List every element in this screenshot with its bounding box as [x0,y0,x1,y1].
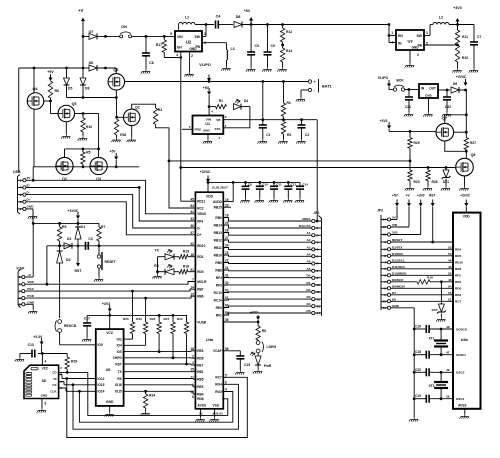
svg-text:FB: FB [417,44,422,48]
svg-text:4: 4 [45,360,47,364]
svg-text:-D5: -D5 [306,309,311,313]
svg-text:TX: TX [155,249,160,253]
svg-text:VIN: VIN [206,118,212,122]
svg-text:54: 54 [448,285,452,289]
svg-text:PwR: PwR [264,364,272,368]
svg-text:9: 9 [317,276,319,280]
svg-text:GND: GND [27,205,35,209]
svg-text:D14/TX: D14/TX [392,245,403,249]
svg-text:IO15: IO15 [115,390,122,394]
svg-text:A2: A2 [307,238,311,242]
op-amp U1 charger [193,116,224,135]
svg-text:53: 53 [448,252,452,256]
wire LED common [157,257,159,274]
svg-text:EN: EN [398,34,403,38]
svg-text:SW: SW [195,35,201,39]
ground Q1 [131,126,133,138]
svg-text:D1: D1 [81,225,85,229]
wire Q4 drain [44,100,51,102]
resistor R23 [158,315,160,322]
svg-text:A5: A5 [307,260,311,264]
svg-text:RD0: RD0 [455,287,461,291]
svg-text:+5V: +5V [110,150,117,154]
svg-text:VDD: VDD [206,195,214,199]
svg-text:D9: D9 [453,82,457,86]
svg-text:6: 6 [45,402,47,406]
svg-text:C1: C1 [266,133,270,137]
svg-text:ON: ON [121,25,127,29]
svg-text:5: 5 [19,289,21,293]
svg-text:10: 10 [317,283,321,287]
svg-text:IN: IN [398,42,402,46]
svg-text:RD5: RD5 [455,254,461,258]
wire RB15 stub [223,206,231,208]
wire U4 out [438,89,450,91]
svg-text:9,25,41: 9,25,41 [213,412,224,416]
svg-text:AVSS: AVSS [458,403,466,407]
svg-text:64: 64 [190,204,194,208]
wire top bus y68 [19,67,83,69]
wire JP2 row 44 [391,261,453,263]
svg-text:D11/SDA: D11/SDA [392,265,406,269]
wire JP1 pin 8 [223,269,311,272]
svg-text:Q1: Q1 [135,106,140,110]
wire Q5 to R10 [75,113,83,115]
wire switch to U2 VIN [132,35,175,37]
wire U3 SW to L2 [424,35,430,37]
svg-text:C5: C5 [255,44,259,48]
wire JP1 pin 13 [223,306,311,307]
svg-text:C13: C13 [28,343,34,347]
svg-text:+3V3: +3V3 [380,119,388,123]
svg-text:Q4: Q4 [32,87,38,91]
svg-text:RE5: RE5 [197,385,203,389]
wire GND JP2 [391,307,415,309]
svg-text:IO5: IO5 [98,343,103,347]
svg-text:3: 3 [384,254,386,258]
ground C6 [141,69,150,74]
svg-text:6: 6 [384,274,386,278]
svg-text:RB14: RB14 [214,223,222,227]
wire JP2 row 53 [391,255,453,257]
svg-text:CS: CS [52,383,56,387]
wire JP1 pin 11 [223,291,311,294]
wire source rail y166.8 [33,166,139,168]
svg-text:RST: RST [429,194,435,198]
svg-text:R24: R24 [149,394,155,398]
svg-text:R5: R5 [86,151,90,155]
wire JP1 pin 3 [223,233,311,236]
svg-text:U1: U1 [205,122,210,126]
svg-text:-D2: -D2 [306,288,311,292]
svg-text:PGC: PGC [27,287,34,291]
svg-text:R14: R14 [286,49,292,53]
ground Q8 [464,176,466,186]
svg-text:Q8: Q8 [471,153,476,157]
resistor R25 [132,291,134,322]
wire PGC row [25,289,196,291]
svg-text:C16: C16 [415,325,421,329]
wire 3V3C column [465,90,467,138]
wire JP1 pin 2 [223,225,311,228]
svg-text:USB: USB [13,170,21,174]
svg-text:R22: R22 [177,317,183,321]
svg-text:5: 5 [20,207,22,211]
svg-text:RB15: RB15 [214,206,222,210]
resistor R21 [172,315,174,322]
svg-text:A1: A1 [307,231,311,235]
svg-text:MCLR: MCLR [197,280,207,284]
svg-text:10,26,38,57: 10,26,38,57 [212,185,229,189]
wire rail to USB 3V [32,167,34,181]
ground Q5 [65,122,67,134]
svg-text:VBUS: VBUS [197,212,206,216]
svg-text:RD0: RD0 [197,270,204,274]
svg-text:RC13: RC13 [214,291,222,295]
wire VUSB row [223,321,258,323]
svg-text:+3V3: +3V3 [453,6,462,10]
svg-text:12: 12 [317,297,321,301]
svg-text:U5: U5 [106,368,111,372]
svg-text:3: 3 [426,31,428,35]
svg-text:RC7: RC7 [215,376,222,380]
svg-text:VLIPO: VLIPO [378,76,389,80]
svg-text:VCC: VCC [106,331,114,335]
wire mid row1 [169,160,410,162]
wire PGD row [25,296,196,298]
svg-text:GND: GND [106,400,114,404]
svg-text:A6: A6 [307,267,311,271]
svg-text:SD: SD [42,379,47,383]
svg-text:JP1: JP1 [314,211,320,215]
svg-text:6: 6 [317,255,319,259]
svg-text:RF0: RF0 [455,274,461,278]
svg-text:3: 3 [317,233,319,237]
wire JP2 row 52 [391,248,453,250]
svg-text:36: 36 [190,224,194,228]
op-amp U4a main MCU [195,192,223,409]
svg-text:RF4: RF4 [216,276,222,280]
svg-text:RB4: RB4 [197,392,204,396]
wire JP2 row 54 [391,287,453,289]
svg-text:RD6: RD6 [197,357,204,361]
wire mid row2 [181,167,456,169]
capacitor C8 [244,181,247,184]
svg-text:FB: FB [195,45,200,49]
op-amp U4 LDO [419,84,438,98]
svg-text:D0: D0 [307,274,311,278]
svg-text:+3V3: +3V3 [417,194,425,198]
svg-text:IO13: IO13 [98,383,105,387]
svg-text:48: 48 [446,325,450,329]
wire JP2 row 51 [391,300,453,302]
svg-text:5: 5 [384,267,386,271]
svg-text:11: 11 [383,306,387,310]
svg-text:4: 4 [20,186,22,190]
svg-text:RD4: RD4 [455,248,461,252]
ground crystal caps [413,399,415,417]
svg-text:GND: GND [425,94,433,98]
op-amp U4b MCU right [453,213,481,409]
svg-text:RST: RST [75,269,83,273]
svg-text:RESET: RESET [105,260,116,264]
wire ICSP +V up [25,276,33,278]
svg-text:R19: R19 [427,275,433,279]
capacitor C14 [299,182,301,186]
svg-text:RE6: RE6 [197,349,203,353]
svg-text:D5: D5 [68,87,72,91]
svg-text:R8: R8 [262,329,266,333]
wire U2 EN down [180,52,182,58]
svg-text:51: 51 [448,298,452,302]
wire Q7 right [454,131,467,133]
svg-text:C10: C10 [262,182,268,186]
svg-text:RG3: RG3 [215,390,222,394]
svg-text:5: 5 [189,125,191,129]
svg-text:11: 11 [317,290,321,294]
svg-text:+3V3: +3V3 [102,302,110,306]
svg-text:2: 2 [20,193,22,197]
svg-text:JP2: JP2 [377,209,383,213]
svg-text:OSC1: OSC1 [456,397,465,401]
svg-text:XT2: XT2 [429,384,435,388]
svg-text:7: 7 [317,262,319,266]
svg-text:RB12: RB12 [214,238,222,242]
svg-text:D4: D4 [307,302,311,306]
svg-text:SOSCI: SOSCI [456,353,466,357]
wire JP2 RESET row [391,241,453,243]
svg-text:R12: R12 [286,30,292,34]
svg-text:+3V3: +3V3 [250,311,258,315]
ground PWR [257,365,259,369]
svg-text:BCK: BCK [396,79,404,83]
svg-text:VLIPO: VLIPO [199,63,210,67]
wire MCLR drop [46,246,48,284]
wire U5 IO15 row [124,390,193,392]
svg-text:R10: R10 [462,56,468,60]
jumper RESCN [58,320,62,324]
wire U5 IO16 row [124,384,193,386]
wire SD DI row [59,374,62,376]
svg-text:R21: R21 [164,317,170,321]
svg-text:RST: RST [115,362,121,366]
svg-text:U2: U2 [186,40,192,45]
wire JP1 pin 9 [223,277,311,279]
svg-text:14: 14 [383,218,387,222]
svg-text:C6: C6 [149,61,154,65]
capacitor C15 [222,350,240,352]
ground U4b [464,409,466,414]
svg-text:R11: R11 [462,35,468,39]
svg-text:Q5: Q5 [72,102,77,106]
svg-text:D8: D8 [85,87,89,91]
svg-text:GND: GND [392,304,400,308]
svg-text:RD10: RD10 [197,244,205,248]
wire bus D [67,377,248,437]
svg-text:VCC: VCC [42,367,49,371]
svg-text:1: 1 [317,219,319,223]
svg-text:+5V: +5V [203,86,210,90]
wire bus C [73,384,238,429]
svg-text:C7: C7 [477,35,481,39]
svg-text:C3: C3 [88,237,92,241]
svg-text:8: 8 [192,395,194,399]
svg-text:RB0: RB0 [215,216,222,220]
wire Q4 column down [33,109,35,167]
wire BAT1 minus [301,89,308,91]
svg-text:34: 34 [190,210,194,214]
wire EN net vertical [180,58,182,202]
svg-text:RE0: RE0 [216,306,222,310]
svg-text:D-: D- [197,226,200,230]
svg-text:R1: R1 [219,99,223,103]
svg-text:1: 1 [20,179,22,183]
wire U5 CHPD row [124,357,191,359]
svg-text:SW: SW [417,34,423,38]
svg-text:A4: A4 [307,252,311,256]
svg-text:LDEN: LDEN [267,345,277,349]
svg-text:R27: R27 [470,141,476,145]
svg-text:12: 12 [383,233,387,237]
svg-text:SOSCO: SOSCO [456,327,468,331]
svg-text:R25: R25 [414,141,420,145]
svg-text:RB10: RB10 [214,253,222,257]
wire JP1 pin 12 [223,298,311,301]
wire JP2 row 43 [391,268,453,270]
svg-text:8: 8 [384,287,386,291]
ground U5 [109,406,111,412]
svg-text:RG4: RG4 [215,383,222,387]
svg-text:7: 7 [384,280,386,284]
wire USB VBUS [26,180,195,214]
wire reset row y246 [47,245,196,247]
wire U2 SW up [203,35,206,37]
wire SD CS row [59,381,64,383]
wire U5 IO0 row [124,351,191,353]
svg-text:BAT1: BAT1 [322,85,332,89]
svg-text:C21: C21 [405,105,411,109]
svg-text:4: 4 [176,53,178,57]
wire JP1 pin 5 [223,248,311,250]
svg-text:+5V: +5V [392,194,399,198]
svg-text:1: 1 [19,282,21,286]
switch RESET [97,255,100,258]
wire AREF drop [316,120,318,221]
wire +V column [82,21,84,69]
svg-text:52: 52 [448,246,452,250]
svg-text:D4: D4 [244,99,248,103]
ground USB [26,208,33,210]
ground L3 [221,66,230,71]
svg-text:55: 55 [448,291,452,295]
svg-text:VDD: VDD [463,215,471,219]
svg-text:RC2: RC2 [197,206,204,210]
svg-text:RD11: RD11 [197,200,205,204]
svg-text:35: 35 [225,318,229,322]
svg-text:D+: D+ [197,233,201,237]
svg-text:2: 2 [417,53,419,57]
svg-text:2: 2 [384,248,386,252]
svg-text:D10/MISO: D10/MISO [392,271,407,275]
svg-text:VSS: VSS [213,404,219,408]
wire RST stub [77,246,79,266]
ground U2 [189,52,191,72]
wire U2 FB to L3 [203,42,227,44]
svg-text:C15: C15 [244,363,250,367]
svg-text:R4: R4 [287,133,291,137]
svg-text:IO4: IO4 [117,344,122,348]
svg-text:RB8: RB8 [215,268,222,272]
op-amp U5 wifi module [96,329,124,406]
ground C13 [19,354,21,358]
svg-text:D8: D8 [236,15,241,19]
svg-text:U3: U3 [407,39,413,44]
ground DZ2 [440,314,442,318]
svg-text:OUT: OUT [429,87,436,91]
svg-text:RB6: RB6 [197,295,204,299]
svg-text:3: 3 [225,115,227,119]
svg-text:RB9: RB9 [215,261,222,265]
svg-text:R28: R28 [432,180,438,184]
ground U4 [428,98,430,107]
svg-text:+3V3C: +3V3C [460,194,471,198]
svg-text:8: 8 [317,269,319,273]
svg-text:D6: D6 [392,297,396,301]
wire U1 VB sense [223,119,317,121]
wire AVDD [223,201,233,203]
op-amp U2 buck regulator [175,31,202,52]
wire U5 IO4 [124,344,146,346]
svg-text:RB1: RB1 [197,370,204,374]
wire D4 to STA [223,107,250,128]
wire pullup rail y315.4 [87,314,187,316]
SD card [24,365,59,398]
svg-text:U4b: U4b [461,338,469,342]
wire USB D+ [26,202,195,235]
svg-text:D9/SCK: D9/SCK [392,278,404,282]
svg-text:2: 2 [317,226,319,230]
wire USB ID [26,188,195,222]
wire bus B [79,391,232,422]
svg-text:RD10: RD10 [455,261,463,265]
wire U5 RX row [124,378,193,380]
svg-text:XT1: XT1 [429,337,435,341]
wire Q7 top [444,115,446,124]
svg-text:CLK: CLK [50,389,57,393]
svg-text:STA: STA [215,127,222,131]
wire Q2 Q3 tops [64,149,66,158]
wire JP2 row 50 [391,274,453,276]
svg-text:4: 4 [19,296,21,300]
svg-text:U4a: U4a [206,338,214,342]
svg-text:RC7: RC7 [455,300,461,304]
capacitor C12 [287,181,290,184]
svg-text:+3V3C: +3V3C [200,170,211,174]
svg-text:VB: VB [216,118,221,122]
svg-text:RD8: RD8 [197,397,204,401]
svg-text:C2: C2 [305,133,309,137]
svg-text:1: 1 [384,240,386,244]
svg-text:DZ2: DZ2 [432,308,438,312]
wire Q6 down [115,90,117,117]
svg-text:+3V3C: +3V3C [68,209,79,213]
wire SD VCC [41,354,43,366]
wire Q7 bottom [445,141,467,151]
svg-text:VCAP: VCAP [213,349,223,353]
svg-text:RD6: RD6 [455,293,461,297]
svg-text:DI: DI [54,377,57,381]
wire U5 TX row [124,371,193,373]
